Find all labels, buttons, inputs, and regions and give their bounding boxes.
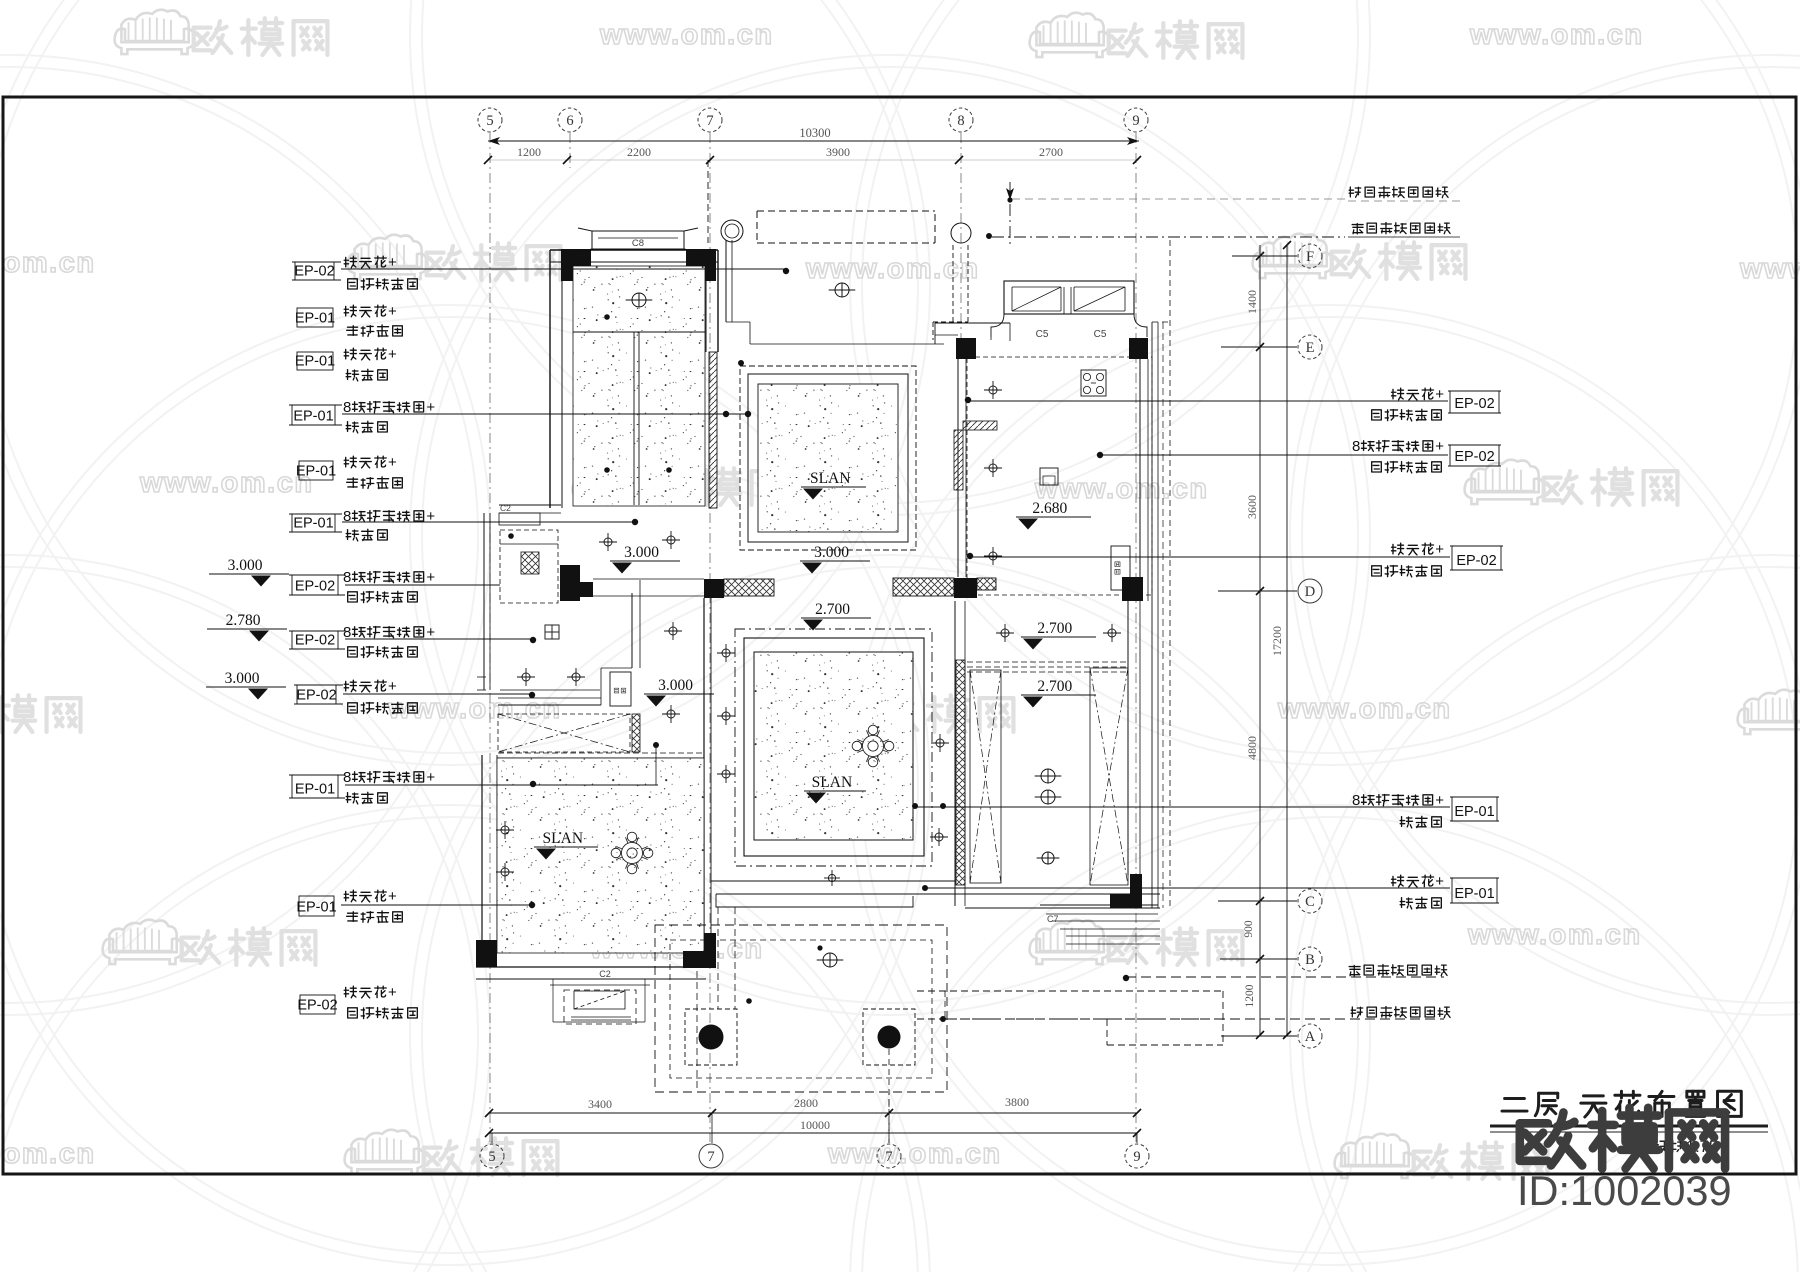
bedroom1 right wall hatched strip — [709, 352, 717, 508]
grid line 5 — [489, 133, 491, 1142]
svg-text:www.om.cn: www.om.cn — [599, 19, 774, 51]
living coffered ceiling — [735, 629, 932, 866]
grid leader — [1232, 255, 1297, 257]
svg-text:EP-01: EP-01 — [296, 464, 336, 480]
label EP-02 8厘硅酸钙板+ — [1352, 438, 1444, 455]
grid bubble 5 — [478, 108, 502, 132]
grid leader — [1218, 900, 1297, 902]
svg-text:SLAN: SLAN — [543, 830, 583, 847]
leader dot — [632, 519, 638, 525]
column block kitchen NW — [956, 338, 976, 359]
cloakroom — [499, 504, 561, 506]
kitchen outer dashed boundary — [952, 245, 954, 322]
title block — [1490, 1091, 1768, 1214]
svg-text:7: 7 — [706, 113, 713, 129]
grid line 8 — [960, 133, 962, 348]
grid bubble E — [1298, 335, 1322, 359]
svg-text:C2: C2 — [599, 969, 611, 979]
svg-text:www.om.cn: www.om.cn — [1277, 693, 1452, 725]
watermark www.om.cn — [1034, 473, 1209, 505]
terrace east dashed band — [917, 990, 1223, 992]
top total dimension line — [488, 140, 1139, 142]
svg-text:8: 8 — [343, 399, 351, 416]
watermark sofa logo 欧模网 — [103, 920, 316, 965]
door gap marks — [477, 676, 486, 678]
window C2 — [564, 990, 636, 1024]
ceiling dot — [604, 314, 610, 320]
svg-text:EP-02: EP-02 — [296, 688, 336, 704]
svg-text:E: E — [1306, 340, 1315, 356]
bottom dimension lines and grid bubbles — [480, 1092, 1149, 1168]
column block bedroom1 NW — [561, 249, 591, 281]
right total dim line — [1286, 245, 1288, 1035]
leader dot — [529, 692, 535, 698]
svg-text:SLAN: SLAN — [812, 774, 852, 791]
dining bottom steps — [955, 893, 1160, 895]
svg-text:2800: 2800 — [794, 1096, 818, 1110]
label EP-01 原天花+涂料饰面 — [299, 461, 333, 480]
svg-text:7: 7 — [707, 1149, 714, 1165]
leader dot — [965, 397, 971, 403]
svg-text:C8: C8 — [632, 238, 644, 249]
svg-text:EP-02: EP-02 — [295, 633, 335, 649]
floor plan — [476, 160, 1345, 1143]
elevation mark SLAN — [534, 830, 598, 860]
label EP-02 8厘硅酸钙板+防水乳胶漆 — [289, 630, 345, 632]
watermark www.om.cn — [1469, 19, 1644, 51]
bedroom2 — [481, 755, 483, 940]
grid leader — [1221, 1035, 1297, 1037]
svg-text:ID:1002039: ID:1002039 — [1517, 1167, 1732, 1214]
small square symbol — [1040, 468, 1058, 485]
crosshatch wall segment hall — [724, 579, 774, 596]
cloakroom dashed ceiling — [500, 530, 558, 603]
svg-text:9: 9 — [1133, 1149, 1140, 1165]
下部轮廓投影线 note — [1352, 223, 1450, 234]
svg-text:+: + — [426, 569, 435, 586]
round column — [721, 220, 743, 242]
grid bubble 9 — [1125, 1144, 1149, 1168]
watermark sofa logo 欧模网 — [573, 460, 786, 505]
right labels — [915, 187, 1503, 1019]
svg-text:1400: 1400 — [1245, 290, 1259, 314]
svg-text:www.om.cn: www.om.cn — [0, 1138, 96, 1170]
svg-text:www.om.cn: www.om.cn — [139, 467, 314, 499]
svg-text:8: 8 — [343, 569, 351, 586]
svg-text:C5: C5 — [1094, 329, 1107, 340]
watermark sofa logo 欧模网 — [0, 687, 80, 732]
svg-text:8: 8 — [1352, 792, 1360, 809]
watermark sofa logo 欧模网 — [1253, 234, 1466, 279]
dining curtain X strips — [970, 670, 1001, 883]
hall-kitchen bracket walls — [935, 322, 1010, 324]
node — [653, 742, 659, 748]
watermark www.om.cn — [1277, 693, 1452, 725]
label EP-01 原天花+ — [1392, 873, 1445, 890]
node — [986, 233, 992, 239]
living-dining wall crosshatch — [956, 660, 965, 885]
svg-text:www.om.cn: www.om.cn — [827, 1138, 1002, 1170]
watermark sofa logo 欧模网 — [1030, 13, 1243, 58]
svg-text:2.700: 2.700 — [815, 601, 850, 618]
watermark sofa logo 欧模网 — [1738, 690, 1800, 735]
leader dot — [817, 945, 822, 950]
svg-text:3.000: 3.000 — [658, 677, 693, 694]
ceiling dot — [666, 467, 672, 473]
svg-text:5: 5 — [486, 113, 493, 129]
svg-text:+: + — [1435, 873, 1444, 890]
leader dot — [912, 803, 918, 809]
svg-text:D: D — [1305, 584, 1315, 600]
leader dot — [967, 553, 973, 559]
svg-text:+: + — [388, 678, 397, 695]
svg-text:+: + — [1435, 792, 1444, 809]
grid bubble F — [1298, 244, 1322, 268]
column block living NW — [704, 579, 724, 598]
label EP-02 原天花+ — [1392, 386, 1445, 403]
svg-text:C2: C2 — [500, 503, 511, 513]
svg-text:4800: 4800 — [1245, 736, 1259, 760]
svg-text:3.000: 3.000 — [814, 544, 849, 561]
svg-text:1200: 1200 — [1244, 984, 1256, 1007]
elevation mark 2.680 — [1016, 500, 1091, 530]
svg-text:8: 8 — [957, 113, 964, 129]
bedroom 1 walls — [550, 249, 718, 251]
kitchen left wall hatch + bar — [954, 430, 963, 490]
leader dot — [1007, 197, 1012, 202]
svg-text:A: A — [1305, 1029, 1316, 1045]
svg-text:3.000: 3.000 — [624, 544, 659, 561]
grid bubble B — [1298, 947, 1322, 971]
hatched shaft box — [521, 552, 539, 574]
svg-text:1200: 1200 — [517, 145, 541, 159]
watermark www.om.cn — [139, 467, 314, 499]
bedroom2 ceiling stipple — [497, 758, 704, 953]
svg-text:6: 6 — [566, 113, 573, 129]
elevation mark SLAN — [801, 470, 866, 500]
bedroom1 ceiling stipple — [573, 266, 705, 506]
svg-text:+: + — [426, 399, 435, 416]
right grid bubbles and dimension lines — [1218, 241, 1322, 1048]
svg-text:+: + — [1435, 541, 1444, 558]
column block bedroom2 SW — [476, 940, 497, 967]
elevation mark 3.000 — [610, 544, 680, 574]
node — [508, 533, 514, 539]
svg-text:EP-02: EP-02 — [295, 579, 335, 595]
elevation mark 2.700 — [801, 601, 871, 631]
svg-text:900: 900 — [1243, 920, 1255, 938]
svg-text:+: + — [1435, 386, 1444, 403]
svg-text:+: + — [388, 984, 397, 1001]
elevation mark 3.000 — [644, 677, 714, 707]
closet X boxes — [498, 714, 630, 752]
svg-text:8: 8 — [1352, 438, 1360, 455]
watermark sofa logo 欧模网 — [115, 10, 328, 55]
watermark www.om.cn — [805, 253, 980, 285]
svg-text:9: 9 — [1132, 113, 1139, 129]
switch symbol — [545, 625, 559, 639]
node — [940, 1016, 946, 1022]
dining right wall — [1127, 601, 1129, 875]
svg-text:2.700: 2.700 — [1037, 678, 1072, 695]
svg-text:EP-02: EP-02 — [297, 998, 337, 1014]
label EP-02 原天花+防水乳胶漆 — [300, 995, 335, 1014]
svg-text:EP-01: EP-01 — [295, 782, 335, 798]
hall upper walls — [725, 240, 727, 322]
living room walls — [703, 598, 705, 933]
svg-text:2.780: 2.780 — [226, 612, 261, 629]
hall coffered ceiling — [740, 366, 916, 550]
leader dot — [723, 411, 729, 417]
svg-text:+: + — [1435, 438, 1444, 455]
leader dot — [745, 411, 751, 417]
svg-text:3900: 3900 — [826, 145, 850, 159]
watermark www.om.cn — [1739, 253, 1800, 285]
svg-text:C5: C5 — [1036, 329, 1049, 340]
grid line 9 — [1135, 133, 1137, 1142]
elevation 3.000 — [206, 670, 286, 700]
svg-text:www.om.cn: www.om.cn — [1739, 253, 1800, 285]
svg-text:+: + — [388, 346, 397, 363]
right dim line — [1259, 245, 1261, 1035]
grid bubble 9 — [1124, 108, 1148, 132]
ceiling dot — [604, 467, 610, 473]
column block dining SE — [1130, 874, 1142, 908]
svg-text:+: + — [426, 769, 435, 786]
watermark sofa logo 欧模网 — [1335, 1134, 1548, 1179]
grid bubble A — [1298, 1024, 1322, 1048]
window C8 — [592, 230, 684, 232]
column block kitchen SW — [954, 578, 977, 598]
label EP-02 原天花+防水乳胶漆 — [294, 684, 343, 686]
kitchen interior dashed ceiling — [967, 357, 1152, 595]
svg-text:EP-02: EP-02 — [1454, 449, 1494, 465]
column block bedroom1 SW — [560, 565, 580, 601]
svg-text:2700: 2700 — [1039, 145, 1063, 159]
elevation mark SLAN — [804, 774, 866, 804]
label EP-02 原天花+防水乳胶漆 — [292, 261, 341, 263]
label EP-01 8厘硅酸钙板+乳胶漆 — [289, 404, 342, 406]
上部轮廓投影线 bottom note — [1351, 1007, 1450, 1018]
upper outline projection dashed band — [757, 210, 935, 212]
label EP-01 原天花+涂料饰面 — [297, 308, 333, 327]
svg-text:EP-02: EP-02 — [1454, 396, 1494, 412]
kitchen/dining outer east boundary — [1151, 322, 1153, 908]
svg-text:5: 5 — [488, 1149, 495, 1165]
leader dot — [1123, 975, 1129, 981]
leader dot — [529, 902, 535, 908]
watermark www.om.cn — [599, 19, 774, 51]
column block kitchen SE — [1122, 577, 1143, 601]
grid leader — [1220, 958, 1297, 960]
svg-text:EP-01: EP-01 — [1454, 886, 1494, 902]
elevation 3.000 — [209, 557, 289, 587]
svg-text:17200: 17200 — [1270, 626, 1284, 656]
grid line 7 — [709, 133, 711, 1142]
svg-text:8: 8 — [343, 769, 351, 786]
svg-text:EP-02: EP-02 — [1456, 553, 1496, 569]
svg-text:+: + — [388, 254, 397, 271]
label EP-01 8厘硅酸钙板+ — [1352, 792, 1444, 809]
svg-text:2.680: 2.680 — [1032, 500, 1067, 517]
svg-text:EP-01: EP-01 — [293, 409, 333, 425]
leader dot — [940, 803, 946, 809]
watermark www.om.cn — [589, 933, 764, 965]
grid bubble D — [1298, 579, 1322, 603]
svg-text:www.om.cn: www.om.cn — [1469, 19, 1644, 51]
grid bubble 6 — [558, 108, 582, 132]
svg-text:+: + — [388, 888, 397, 905]
elevation mark 3.000 — [800, 544, 870, 574]
shaft 竖井 — [610, 672, 631, 706]
svg-text:B: B — [1305, 952, 1315, 968]
watermark sofa logo 欧模网 — [345, 1130, 558, 1175]
leader dot — [1097, 452, 1103, 458]
svg-text:www.om.cn: www.om.cn — [0, 247, 96, 279]
svg-text:C: C — [1305, 894, 1315, 910]
svg-text:3800: 3800 — [1005, 1095, 1029, 1109]
label EP-01 8厘硅酸钙板+乳胶漆 — [289, 513, 342, 515]
grid bubble 7 — [699, 1144, 723, 1168]
elevation mark 2.700 — [1021, 620, 1096, 650]
gas stove symbol — [1081, 370, 1106, 396]
watermark www.om.cn — [827, 1138, 1002, 1170]
elevation mark 2.700 — [1021, 678, 1096, 708]
label EP-02 8厘硅酸钙板+防水乳胶漆 — [289, 574, 345, 576]
label EP-01 8厘硅酸钙板+乳胶漆 — [289, 774, 345, 776]
dining top dashed lines — [958, 661, 1129, 663]
svg-text:EP-01: EP-01 — [293, 516, 333, 532]
label EP-01 原天花+乳胶漆 — [297, 352, 333, 370]
svg-text:+: + — [426, 624, 435, 641]
top grid bubbles and dimensions — [478, 108, 1148, 1142]
watermark sofa logo 欧模网 — [1465, 460, 1678, 505]
node — [738, 360, 744, 366]
svg-text:EP-01: EP-01 — [295, 354, 335, 370]
watermark www.om.cn — [1467, 919, 1642, 951]
svg-text:2200: 2200 — [627, 145, 651, 159]
column block kitchen NE — [1129, 338, 1148, 359]
svg-text:3600: 3600 — [1245, 495, 1259, 519]
elevation 2.780 — [207, 612, 287, 642]
terrace column pads — [685, 1009, 737, 1065]
big watermark 欧模网 — [1520, 1108, 1725, 1169]
node — [746, 998, 752, 1004]
leader dot — [783, 268, 789, 274]
watermark www.om.cn — [0, 1138, 96, 1170]
leader dot — [530, 637, 536, 643]
ceiling rosette lamp — [621, 842, 642, 863]
grid bubble C — [1298, 889, 1322, 913]
svg-text:EP-01: EP-01 — [295, 311, 335, 327]
leader dot — [922, 885, 928, 891]
svg-text:3.000: 3.000 — [228, 557, 263, 574]
left material labels — [206, 254, 789, 1019]
svg-text:+: + — [388, 454, 397, 471]
crosshatch segment — [977, 578, 996, 590]
label EP-01 原天花+涂料饰面 — [299, 896, 334, 916]
column block living SW — [702, 933, 716, 968]
grid bubble 8 — [949, 108, 973, 132]
terrace columns — [699, 1025, 724, 1050]
svg-text:7: 7 — [885, 1149, 892, 1165]
watermark sofa logo 欧模网 — [348, 235, 561, 280]
grid bubble 7 — [877, 1144, 901, 1168]
top segment dimension line — [488, 159, 1139, 161]
grid bubble 5 — [480, 1144, 504, 1168]
kitchen C5 window — [1004, 281, 1134, 314]
leader dot — [530, 781, 536, 787]
column block bedroom1 NE — [686, 249, 716, 281]
window C2 side — [499, 513, 540, 525]
svg-text:8: 8 — [343, 624, 351, 641]
svg-text:3.000: 3.000 — [225, 670, 260, 687]
grid line 6 — [569, 133, 571, 168]
svg-text:F: F — [1306, 249, 1314, 265]
svg-text:SLAN: SLAN — [810, 470, 850, 487]
terrace dashed boundary — [655, 925, 947, 1092]
svg-text:10300: 10300 — [799, 126, 830, 140]
下部轮廓投影线 bottom note — [1349, 965, 1447, 976]
上部轮廓投影线 note — [1349, 187, 1448, 198]
svg-text:www.om.cn: www.om.cn — [1467, 919, 1642, 951]
shaft 竖井 kitchen — [1111, 546, 1130, 590]
wall lines of middle band — [593, 578, 704, 580]
svg-text:C7: C7 — [1047, 914, 1059, 924]
watermark www.om.cn — [387, 693, 562, 725]
grid bubble 7 — [698, 108, 722, 132]
svg-text:EP-01: EP-01 — [296, 900, 336, 916]
svg-text:3400: 3400 — [588, 1097, 612, 1111]
svg-text:10000: 10000 — [800, 1118, 830, 1132]
下部轮廓投影线 dashed — [992, 236, 1345, 238]
svg-text:EP-01: EP-01 — [1454, 804, 1494, 820]
watermark sofa logo 欧模网 — [801, 687, 1014, 732]
grid leader — [1221, 346, 1297, 348]
ceiling rosette lamp — [862, 735, 883, 756]
watermark sofa logo 欧模网 — [1030, 920, 1243, 965]
label EP-02 原天花+ — [1392, 541, 1445, 558]
bedroom2 bottom wall + C2 window — [476, 966, 706, 968]
svg-text:EP-02: EP-02 — [294, 264, 334, 280]
svg-text:2.700: 2.700 — [1037, 620, 1072, 637]
svg-text:+: + — [388, 303, 397, 320]
grid leader — [1218, 590, 1297, 592]
watermark www.om.cn — [0, 247, 96, 279]
